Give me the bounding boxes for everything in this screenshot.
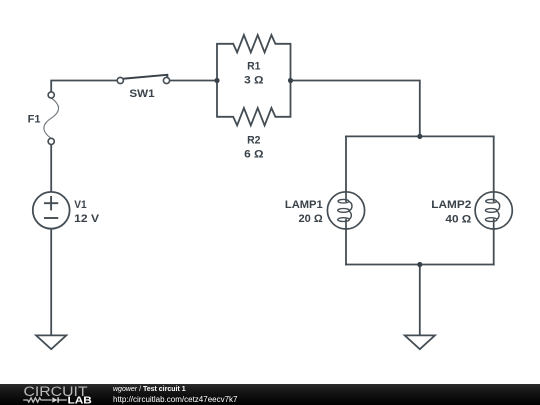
svg-text:20 Ω: 20 Ω (299, 213, 323, 225)
svg-text:R1: R1 (247, 61, 260, 73)
wire lamp2 bottom (493, 229, 495, 265)
wire lamp1 top (345, 136, 347, 192)
svg-text:LAMP1: LAMP1 (285, 199, 323, 211)
wire lamp2 top (493, 136, 495, 192)
svg-text:40 Ω: 40 Ω (445, 214, 471, 226)
wire switch to R-block (170, 80, 217, 82)
logo resistor+diode squiggle (23, 398, 67, 402)
switch SW1 (117, 75, 169, 84)
wire V1 to left ground (50, 229, 52, 336)
node junction left of R-block (214, 78, 219, 83)
svg-text:R2: R2 (247, 135, 260, 147)
wire R-block to lamp rail corner (291, 81, 420, 137)
fuse F1 (44, 92, 59, 145)
footer bar (0, 384, 540, 405)
wire bottom rail to right ground (419, 265, 421, 336)
resistor R1 (217, 35, 291, 81)
CircuitLab logo (20, 384, 112, 405)
lamp LAMP2 (475, 192, 512, 229)
node junction lamp top rail (417, 134, 422, 139)
ground left (36, 335, 66, 349)
node junction right of R-block (288, 78, 293, 83)
svg-text:F1: F1 (28, 113, 41, 125)
svg-text:LAMP2: LAMP2 (431, 199, 471, 211)
lamp LAMP1 (327, 192, 364, 229)
voltage source V1 (33, 192, 70, 229)
wire lamp1 bottom (345, 229, 347, 265)
svg-text:3 Ω: 3 Ω (244, 75, 264, 87)
svg-text:SW1: SW1 (129, 88, 154, 100)
wire fuse to V1 (50, 145, 52, 193)
svg-text:V1: V1 (74, 199, 86, 211)
node junction lamp bottom rail (417, 262, 422, 267)
ground right (405, 335, 435, 349)
svg-text:12 V: 12 V (74, 213, 100, 225)
wire top-left corner to switch (51, 81, 117, 92)
svg-text:6 Ω: 6 Ω (244, 149, 264, 161)
resistor R2 (217, 81, 291, 126)
lamp top rail (346, 135, 494, 137)
svg-text:LAB: LAB (68, 395, 92, 405)
lamp bottom rail (346, 264, 494, 266)
